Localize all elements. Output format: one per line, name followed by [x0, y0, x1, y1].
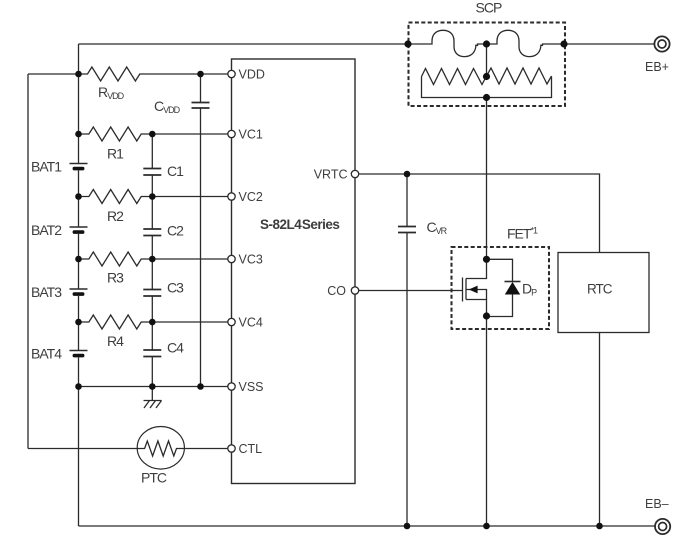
- wire CO net to FET gate: [359, 290, 463, 292]
- svg-text:EB+: EB+: [645, 60, 669, 74]
- wire RTC to bottom rail: [599, 333, 601, 527]
- node VC1: [75, 131, 82, 138]
- RTC box: [558, 253, 649, 333]
- svg-text:VRTC: VRTC: [314, 167, 348, 181]
- capacitor CVR: [398, 174, 416, 526]
- node heater bottom: [483, 94, 490, 101]
- fuse F2: [487, 30, 565, 56]
- pin VRTC: [351, 170, 358, 177]
- svg-text:CVR: CVR: [427, 219, 448, 236]
- capacitor C2: [143, 229, 161, 289]
- svg-text:CVDD: CVDD: [154, 98, 181, 115]
- node VC2: [75, 193, 82, 200]
- wire far-left to PTC: [28, 448, 138, 450]
- resistor RVDD: [79, 67, 228, 81]
- svg-text:CO: CO: [327, 284, 346, 298]
- heater resistor: [422, 68, 552, 98]
- node VRTC/CVR: [404, 171, 411, 178]
- svg-text:R4: R4: [107, 333, 124, 349]
- pin VDD: [228, 70, 235, 77]
- svg-text:C3: C3: [167, 280, 184, 296]
- pin CO: [351, 287, 358, 294]
- wire far-left branch top horizontal: [28, 73, 79, 75]
- svg-text:BAT4: BAT4: [31, 346, 62, 362]
- wire EB+ lead: [564, 43, 654, 45]
- pin VC4: [228, 318, 235, 325]
- battery BAT2: [70, 227, 88, 289]
- svg-text:R1: R1: [107, 146, 124, 162]
- node SCP center: [483, 40, 490, 47]
- node SCP right: [560, 40, 567, 47]
- node VSS: [75, 383, 82, 390]
- svg-text:R3: R3: [107, 270, 124, 286]
- svg-text:VC4: VC4: [239, 315, 263, 329]
- node SCP left: [404, 40, 411, 47]
- IC U1 S-82L4 body: [232, 59, 356, 484]
- terminal EB-: [655, 519, 670, 534]
- thermistor PTC: [137, 427, 228, 470]
- SCP dashed box: [409, 23, 566, 107]
- wire FET drain to bottom rail: [486, 316, 488, 526]
- node FET source: [483, 256, 490, 263]
- svg-text:EB–: EB–: [645, 497, 669, 511]
- resistor R2: [79, 190, 228, 204]
- svg-text:C2: C2: [167, 223, 184, 239]
- capacitor CVDD: [192, 74, 210, 387]
- svg-text:RVDD: RVDD: [98, 84, 125, 101]
- pin VSS: [228, 383, 235, 390]
- node heater center: [483, 73, 490, 80]
- battery BAT4: [70, 351, 88, 527]
- node VDD/battery+: [75, 71, 82, 78]
- svg-text:RTC: RTC: [587, 282, 613, 297]
- capacitor C4: [143, 350, 161, 387]
- battery BAT3: [70, 289, 88, 351]
- capacitor C1: [143, 134, 161, 229]
- wire VRTC net: [359, 174, 600, 253]
- capacitor C3: [143, 290, 161, 350]
- wire SCP center tap: [486, 44, 488, 77]
- wire VSS row: [79, 386, 228, 388]
- svg-text:VC1: VC1: [239, 127, 263, 141]
- svg-text:SCP: SCP: [476, 0, 502, 16]
- wire SCP heater to FET: [486, 98, 488, 260]
- resistor R3: [79, 252, 228, 266]
- wire top rail from battery plus to SCP: [79, 43, 409, 45]
- wire bottom rail EB-: [79, 525, 655, 527]
- wire far-left vertical: [27, 74, 29, 449]
- svg-text:VSS: VSS: [239, 380, 264, 394]
- node bottom FET: [483, 523, 490, 530]
- pin VC2: [228, 193, 235, 200]
- transistor Q1 pch MOSFET: [463, 259, 487, 316]
- svg-text:VC2: VC2: [239, 190, 263, 204]
- svg-text:DP: DP: [522, 281, 537, 298]
- svg-text:PTC: PTC: [141, 470, 167, 486]
- FET dashed box: [452, 247, 550, 329]
- svg-text:BAT2: BAT2: [31, 222, 62, 238]
- svg-text:CTL: CTL: [239, 442, 263, 456]
- resistor R1: [79, 127, 228, 141]
- svg-text:FET*1: FET*1: [507, 226, 538, 242]
- pin VC1: [228, 130, 235, 137]
- svg-text:C4: C4: [167, 340, 184, 356]
- svg-text:C1: C1: [167, 163, 184, 179]
- ground symbol: [144, 387, 162, 409]
- svg-text:BAT1: BAT1: [31, 159, 62, 175]
- svg-text:VDD: VDD: [239, 67, 265, 81]
- pin CTL: [228, 445, 235, 452]
- battery BAT1: [70, 164, 88, 228]
- node VC4: [75, 319, 82, 326]
- svg-text:VC3: VC3: [239, 252, 263, 266]
- diode DP body diode: [487, 259, 521, 316]
- wire battery column top corner: [78, 44, 80, 164]
- pin VC3: [228, 255, 235, 262]
- node bottom RTC: [596, 523, 603, 530]
- fuse F1: [408, 30, 487, 56]
- node bottom CVR: [404, 523, 411, 530]
- resistor R4: [79, 315, 228, 329]
- node VC3: [75, 256, 82, 263]
- node FET drain: [483, 312, 490, 319]
- svg-text:R2: R2: [107, 208, 124, 224]
- terminal EB+: [654, 36, 669, 51]
- svg-text:S-82L4 Series: S-82L4 Series: [260, 217, 339, 232]
- pin circles: [228, 70, 359, 452]
- svg-text:BAT3: BAT3: [31, 284, 62, 300]
